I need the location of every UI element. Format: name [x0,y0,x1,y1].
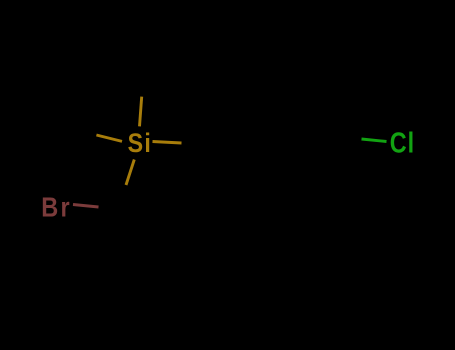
bond Si-phenyl [153,142,182,144]
svg-text:r: r [61,193,70,223]
atom label Cl [390,126,414,159]
svg-text:l: l [408,126,415,159]
svg-text:C: C [390,126,407,159]
svg-text:B: B [41,193,58,223]
bond Si-CH2 down [126,160,134,186]
bond C-Cl [362,139,387,142]
bond Si-CH3 up [140,97,142,127]
atom label Si [128,129,151,159]
bond Si-CH3 left [96,135,122,141]
svg-text:S: S [128,129,143,159]
svg-text:i: i [144,129,150,159]
bond C-Br [73,205,99,208]
atom label Br [41,193,69,223]
